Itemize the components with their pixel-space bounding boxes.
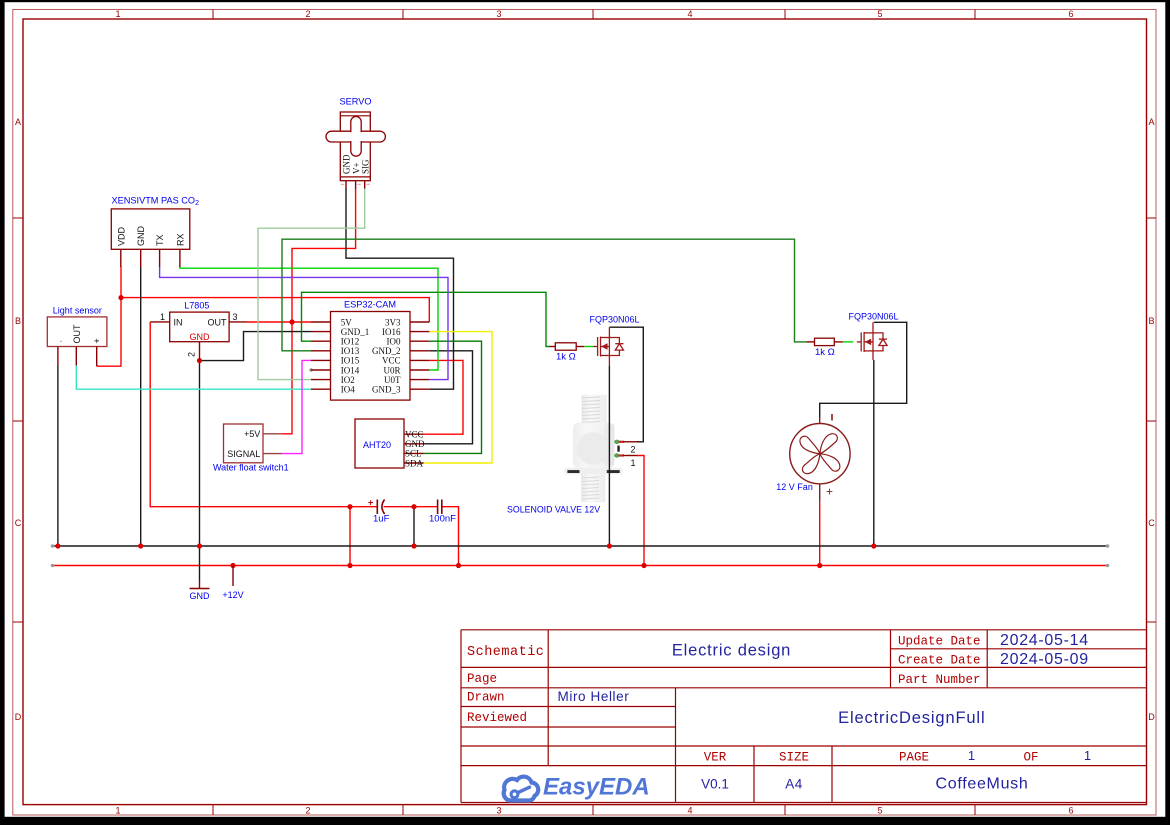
svg-text:6: 6 (1068, 806, 1073, 816)
svg-text:AHT20: AHT20 (363, 440, 391, 450)
title block values (558, 632, 1092, 793)
wire: IO16 to AHT20 SDA (yellow) (424, 332, 493, 463)
svg-text:B: B (1148, 316, 1154, 326)
wire: right resistor to gate segment (bright green) (843, 341, 854, 343)
svg-text:3: 3 (233, 312, 238, 322)
wire: +12V rail (red) (53, 565, 1108, 567)
svg-text:100nF: 100nF (429, 514, 456, 525)
wire: GND rail (black) (53, 545, 1108, 547)
svg-text:2024-05-14: 2024-05-14 (1000, 632, 1089, 649)
svg-text:+5V: +5V (244, 429, 260, 439)
ESP32 pins right (410, 322, 429, 389)
svg-text:1: 1 (115, 9, 120, 19)
AHT20 pins (404, 434, 424, 463)
wire: +5V net (red) servo V+ / L7805 OUT / ESP32 5V / float +5V (247, 188, 356, 434)
svg-text:2: 2 (187, 352, 197, 357)
ruler ticks bottom (213, 805, 975, 815)
wire: light sensor OUT to IO4 (cyan) (76, 366, 311, 390)
svg-text:1: 1 (160, 312, 165, 322)
capacitor C2 100nF (438, 500, 442, 515)
svg-text:+: + (92, 338, 102, 343)
wire: IO0 to AHT20 SCL (dark green) (424, 341, 482, 453)
light sensor pin names (53, 324, 102, 344)
svg-text:GND: GND (342, 154, 352, 174)
svg-text:A4: A4 (785, 776, 803, 791)
svg-text:TX: TX (155, 234, 165, 246)
svg-text:Page: Page (467, 672, 497, 686)
svg-text:VCC: VCC (405, 430, 424, 440)
svg-text:GND: GND (190, 332, 211, 342)
svg-text:IO13: IO13 (341, 346, 360, 356)
svg-text:Electric design: Electric design (672, 642, 791, 660)
EasyEDA logo cloud (504, 777, 539, 801)
wire: IO12 to left gate resistor (green) (302, 292, 550, 346)
svg-text:1: 1 (115, 806, 120, 816)
wire: 12V input net L7805 IN to caps (red) (150, 322, 458, 566)
wire: VCC net ESP32 to AHT20 (red) (424, 360, 464, 434)
svg-text:OUT: OUT (208, 317, 228, 327)
wire: GND_2 to AHT20 GND (black) (424, 351, 473, 444)
svg-text:3V3: 3V3 (385, 317, 401, 327)
svg-text:.: . (53, 340, 63, 343)
wire: right MOSFET source to GND rail (black) (873, 360, 875, 546)
svg-text:1uF: 1uF (373, 514, 390, 525)
svg-text:Part Number: Part Number (898, 673, 981, 687)
svg-text:SERVO: SERVO (340, 97, 372, 107)
wire: light sensor pin1 to GND (black) (57, 366, 59, 547)
svg-text:Light sensor: Light sensor (53, 306, 102, 316)
servo pin names (342, 154, 371, 174)
svg-text:Drawn: Drawn (467, 691, 505, 705)
svg-text:EasyEDA: EasyEDA (543, 774, 650, 801)
wire: cap midpoint to GND rail (black) (413, 507, 415, 546)
ESP32 pins left (311, 322, 331, 389)
ESP32-CAM box (331, 312, 411, 401)
wire: fan + to +12V (red) (819, 502, 821, 566)
svg-text:IO15: IO15 (341, 356, 360, 366)
svg-text:VCC: VCC (382, 356, 401, 366)
svg-text:1: 1 (631, 458, 636, 468)
wire: servo GND to GND_3 (black) (346, 188, 454, 389)
svg-text:Reviewed: Reviewed (467, 711, 527, 725)
ruler numbers bottom (115, 806, 1073, 816)
title block field labels (467, 635, 1039, 765)
svg-text:FQP30N06L: FQP30N06L (849, 312, 899, 322)
junction dots (55, 295, 876, 568)
ruler ticks top (213, 10, 975, 20)
wire: IO13 to right gate resistor (green) (282, 239, 807, 351)
svg-text:3: 3 (496, 9, 501, 19)
svg-text:IO14: IO14 (341, 365, 360, 375)
ruler letters right (1148, 117, 1155, 722)
svg-text:2: 2 (631, 445, 636, 455)
GND power flag (199, 581, 201, 589)
light sensor box (47, 317, 107, 347)
wire: left MOSFET source to GND rail (black) (608, 366, 610, 546)
wire: right MOSFET drain to fan - (black) (820, 322, 907, 417)
svg-text:D: D (1148, 712, 1155, 722)
svg-text:GND: GND (190, 591, 211, 601)
svg-text:IO2: IO2 (341, 375, 355, 385)
svg-text:Water float switch1: Water float switch1 (213, 463, 289, 473)
title block grid (461, 630, 1147, 803)
wire: CO2 RX to U0R (bright green) (180, 267, 438, 371)
ruler numbers top (115, 9, 1073, 19)
svg-text:SIZE: SIZE (779, 751, 809, 765)
svg-text:6: 6 (1068, 9, 1073, 19)
svg-text:SDA: SDA (405, 458, 424, 468)
svg-text:2: 2 (305, 9, 310, 19)
svg-text:ESP32-CAM: ESP32-CAM (344, 300, 396, 310)
svg-text:5V: 5V (341, 317, 353, 327)
svg-text:Schematic: Schematic (467, 645, 544, 660)
svg-text:C: C (1148, 518, 1155, 528)
CO2 pins (121, 249, 180, 267)
black screen edge bottom (0, 817, 1170, 825)
valve pin pads (617, 446, 619, 452)
svg-text:1: 1 (1084, 748, 1091, 763)
svg-text:12 V Fan: 12 V Fan (776, 482, 813, 492)
svg-text:ElectricDesignFull: ElectricDesignFull (838, 709, 985, 727)
svg-text:XENSIVTM PAS CO2: XENSIVTM PAS CO2 (112, 196, 200, 208)
svg-text:A: A (15, 117, 21, 127)
water float switch box (224, 424, 264, 463)
svg-text:1: 1 (968, 748, 975, 763)
svg-text:B: B (15, 316, 21, 326)
AHT20 pin names (405, 430, 425, 469)
svg-text:GND_1: GND_1 (341, 327, 370, 337)
svg-text:U0R: U0R (383, 365, 400, 375)
wire: servo SIG to IO2 (pale green) (258, 188, 365, 380)
MOSFET Q1 FQP30N06L (593, 327, 623, 365)
fan blades (798, 431, 843, 476)
light sensor pins (58, 347, 97, 367)
wire: CO2 TX to U0T (purple) (160, 267, 448, 380)
ruler letters left (15, 117, 22, 722)
svg-text:U0T: U0T (384, 375, 401, 385)
svg-text:4: 4 (687, 806, 692, 816)
svg-text:IO0: IO0 (387, 337, 401, 347)
svg-text:+12V: +12V (222, 590, 243, 600)
resistor R2 1k (815, 338, 835, 345)
svg-text:IO4: IO4 (341, 385, 355, 395)
svg-text:Miro Heller: Miro Heller (558, 689, 630, 704)
wire: L7805 GND net to GND_1 and rail (black) (200, 332, 312, 581)
wire: left resistor to gate segment (bright green) (584, 346, 593, 348)
svg-text:3: 3 (496, 806, 501, 816)
black screen edge right (1165, 0, 1170, 825)
12V fan motor M1 (790, 418, 850, 502)
svg-text:Update Date: Update Date (898, 635, 981, 649)
svg-text:V0.1: V0.1 (701, 776, 729, 791)
wire: IO15 to float SIGNAL (magenta) (282, 360, 311, 453)
black screen edge left (0, 0, 5, 825)
svg-text:SOLENOID VALVE 12V: SOLENOID VALVE 12V (507, 505, 600, 515)
+12V power flag (232, 566, 234, 587)
MOSFET Q2 FQP30N06L (857, 322, 887, 360)
svg-text:GND_2: GND_2 (372, 346, 401, 356)
resistor R1 1k (555, 343, 576, 350)
L7805 box (170, 312, 229, 342)
wire: left MOSFET drain to valve pin 2 (black) (609, 327, 643, 442)
XENSIV PAS CO2 box (111, 209, 190, 249)
svg-text:FQP30N06L: FQP30N06L (590, 315, 640, 325)
svg-text:SCL: SCL (405, 449, 422, 459)
servo pins (346, 181, 365, 189)
svg-text:RX: RX (175, 233, 185, 246)
svg-text:SIGNAL: SIGNAL (227, 449, 260, 459)
wire: valve pin1 to +12V (red) (637, 456, 644, 566)
CO2 pin names (116, 226, 185, 247)
svg-text:L7805: L7805 (184, 301, 209, 311)
svg-text:C: C (15, 518, 22, 528)
svg-text:2024-05-09: 2024-05-09 (1000, 651, 1089, 668)
svg-text:IO12: IO12 (341, 337, 360, 347)
wire: CO2 VDD / 3V3 / light sensor + (red) (97, 267, 430, 367)
AHT20 box (355, 419, 404, 468)
solenoid valve 12V photo image (564, 395, 638, 503)
svg-text:1k Ω: 1k Ω (556, 352, 576, 363)
svg-text:4: 4 (687, 9, 692, 19)
svg-text:VDD: VDD (116, 226, 126, 246)
svg-text:+: + (368, 498, 373, 508)
svg-text:5: 5 (877, 806, 882, 816)
svg-text:A: A (1148, 117, 1154, 127)
black screen edge top (0, 0, 1170, 2)
svg-text:OF: OF (1023, 751, 1038, 765)
wire: CO2 GND down (black) (140, 267, 142, 547)
capacitor C1 1uF (377, 500, 384, 515)
svg-text:IO16: IO16 (382, 327, 401, 337)
ESP32 pin names (341, 317, 370, 394)
svg-text:2: 2 (305, 806, 310, 816)
fan labels (831, 414, 833, 421)
svg-text:1k Ω: 1k Ω (815, 347, 835, 358)
svg-text:GND: GND (405, 439, 425, 449)
svg-text:VER: VER (704, 751, 727, 765)
svg-text:+: + (826, 485, 833, 499)
water float pins (263, 434, 282, 454)
ruler ticks left (13, 218, 23, 622)
svg-text:GND_3: GND_3 (372, 385, 401, 395)
ruler ticks right (1147, 218, 1157, 622)
svg-text:OUT: OUT (72, 324, 82, 344)
svg-text:5: 5 (877, 9, 882, 19)
svg-text:GND: GND (136, 226, 146, 247)
svg-text:PAGE: PAGE (899, 751, 929, 765)
svg-text:D: D (15, 712, 22, 722)
L7805 pins (150, 322, 246, 361)
rail end dots (gray) (51, 368, 1110, 567)
svg-text:CoffeeMush: CoffeeMush (936, 776, 1029, 793)
svg-text:Create Date: Create Date (898, 654, 981, 668)
servo symbol body (326, 112, 385, 181)
svg-text:SIG: SIG (361, 159, 371, 174)
svg-text:IN: IN (174, 317, 183, 327)
